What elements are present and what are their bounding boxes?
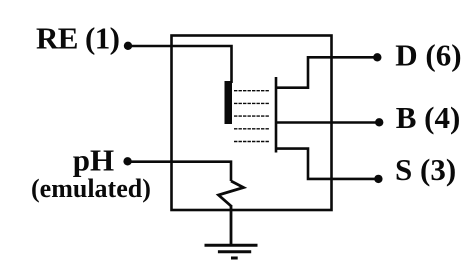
svg-text:RE (1): RE (1) xyxy=(36,21,119,56)
wire pH to resistor xyxy=(128,162,231,181)
gate electrode bar xyxy=(225,81,233,124)
wire RE to gate xyxy=(128,46,232,83)
insulator dashed line 2 xyxy=(234,102,269,104)
svg-text:S (3): S (3) xyxy=(395,152,456,187)
ground bar 3 xyxy=(231,257,238,260)
package outline box xyxy=(172,36,332,211)
node RE (pin 1 dot) xyxy=(124,42,132,50)
resistor (zigzag) xyxy=(219,181,244,206)
node B (pin 4 dot) xyxy=(375,118,383,126)
wire drain xyxy=(276,57,377,87)
insulator dashed line 3 xyxy=(234,115,269,117)
node S (pin 3 dot) xyxy=(374,175,382,183)
svg-text:B (4): B (4) xyxy=(396,100,461,135)
svg-text:D (6): D (6) xyxy=(395,37,461,72)
ground bar 1 xyxy=(205,244,258,247)
insulator dashed line 4 xyxy=(234,128,269,130)
svg-text:pH: pH xyxy=(73,143,114,178)
node D (pin 6 dot) xyxy=(373,53,381,61)
wire bulk xyxy=(276,121,379,124)
ground bar 2 xyxy=(218,250,251,253)
channel line (transistor body) xyxy=(275,77,278,153)
insulator dashed line 5 xyxy=(234,141,269,143)
svg-text:(emulated): (emulated) xyxy=(31,174,151,203)
node pH dot xyxy=(123,157,131,165)
insulator dashed line 1 xyxy=(234,90,269,92)
wire source xyxy=(276,149,378,179)
wire resistor to ground xyxy=(230,205,233,245)
